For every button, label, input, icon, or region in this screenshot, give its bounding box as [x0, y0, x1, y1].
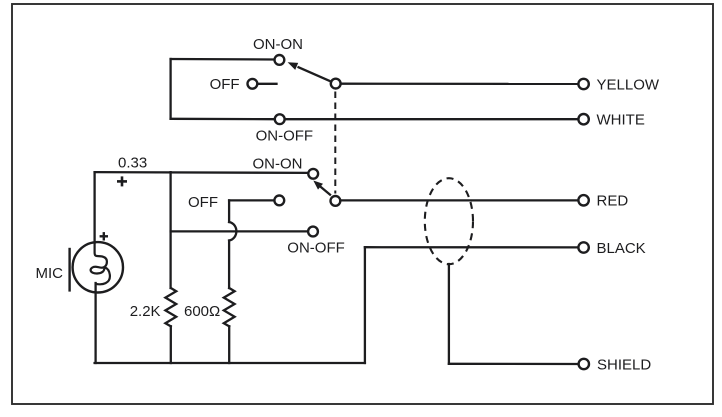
svg-text:SHIELD: SHIELD — [597, 357, 651, 374]
wire: OFF2 to left bend — [229, 199, 273, 201]
wire: to SHIELD terminal — [449, 363, 578, 366]
wire: shield vertical from cable — [448, 264, 450, 364]
terminal RED — [578, 195, 588, 205]
svg-text:600Ω: 600Ω — [184, 303, 220, 320]
svg-text:OFF: OFF — [188, 194, 218, 211]
wire: black branch vertical — [364, 247, 366, 363]
svg-text:ON-ON: ON-ON — [253, 156, 303, 173]
wire: left vertical down to MIC — [93, 172, 95, 242]
wire: common1 to YELLOW terminal — [342, 83, 579, 86]
wire: middle vertical (cap junction to 2.2K) — [169, 172, 171, 288]
terminal BLACK — [578, 242, 588, 252]
wire: to BLACK terminal — [365, 246, 578, 248]
wire hop over middle rail — [229, 222, 236, 241]
wire: 2.2K bottom to rail — [170, 326, 172, 363]
svg-text:BLACK: BLACK — [597, 240, 646, 257]
wire: MIC bottom lead — [94, 283, 96, 363]
terminal OFF2 — [274, 196, 284, 206]
svg-text:2.2K: 2.2K — [130, 303, 161, 320]
terminal ON-ON1 — [275, 55, 285, 65]
resistor R2 600ohm zigzag — [224, 288, 235, 326]
terminal ON-ON2 — [308, 169, 318, 179]
switch S2 common — [331, 196, 341, 206]
svg-text:YELLOW: YELLOW — [597, 76, 660, 93]
switch S1 pole link (dashed) — [334, 92, 336, 194]
terminal WHITE — [578, 114, 588, 124]
plus sign (capacitor polarity) — [117, 176, 127, 186]
switch S1 common — [331, 79, 341, 89]
wire: OFF2 vertical upper — [228, 200, 230, 222]
wire: bottom rail — [95, 362, 365, 364]
terminal ON-OFF1 — [275, 114, 285, 124]
wire: switch1 left vertical — [169, 59, 171, 119]
plus sign (MIC polarity) — [100, 232, 108, 240]
wire: switch1 bottom rail to ON-OFF terminal — [171, 118, 274, 121]
svg-text:MIC: MIC — [36, 265, 64, 282]
svg-text:OFF: OFF — [210, 76, 240, 93]
terminal YELLOW — [578, 79, 588, 89]
wire: OFF1 stub — [258, 83, 276, 85]
svg-text:ON-OFF: ON-OFF — [256, 127, 314, 144]
terminal ON-OFF2 — [308, 227, 318, 237]
wire: common2 to RED terminal — [341, 199, 578, 201]
wire: switch1 top rail to ON-ON terminal — [171, 58, 274, 61]
svg-text:RED: RED — [597, 193, 629, 210]
switch S1 arm — [288, 62, 331, 81]
wire: OFF2 vertical lower to 600ohm — [228, 241, 230, 289]
svg-text:ON-OFF: ON-OFF — [287, 240, 345, 257]
switch S2 arm — [313, 181, 331, 196]
wire: middle rail to ON-OFF2 — [171, 230, 308, 232]
wire: 600ohm bottom to rail — [228, 326, 230, 363]
wire: switch2 top rail from cap to ON-ON2 — [95, 171, 309, 174]
terminal SHIELD — [579, 359, 589, 369]
cable bundle ellipse (dashed) — [425, 178, 473, 264]
microphone MIC — [70, 241, 123, 293]
resistor R1 2.2K zigzag — [165, 288, 176, 326]
wire: ON-OFF1 to WHITE terminal — [286, 118, 579, 120]
svg-text:0.33: 0.33 — [118, 155, 147, 172]
svg-text:ON-ON: ON-ON — [253, 36, 303, 53]
terminal OFF1 — [248, 79, 258, 89]
svg-text:WHITE: WHITE — [597, 112, 645, 129]
